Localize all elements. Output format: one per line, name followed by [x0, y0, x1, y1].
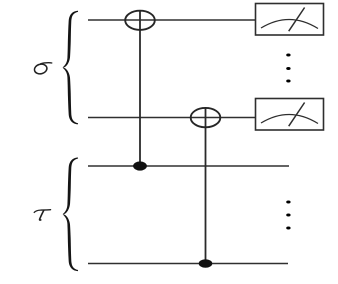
meter M2 arc	[261, 114, 318, 123]
CNOT control dot 1	[133, 161, 147, 170]
meter M2 needle	[289, 103, 305, 127]
CNOT target X2	[191, 108, 221, 127]
vertical ellipsis top	[286, 54, 290, 83]
CNOT control dot 2	[199, 259, 213, 268]
label tau	[34, 210, 50, 220]
wire q2 (second sigma wire)	[88, 117, 255, 119]
wire t2 (second tau wire)	[88, 263, 288, 265]
wire t1 (first tau wire)	[88, 165, 289, 167]
vertical ellipsis bottom	[286, 201, 290, 230]
CNOT target X1	[125, 11, 155, 30]
meter M1 needle	[289, 8, 305, 32]
wire control line CNOT2	[205, 108, 207, 264]
meter M2 box	[256, 99, 324, 131]
wire q1 (top sigma wire)	[88, 19, 255, 21]
brace tau	[63, 157, 78, 271]
wire control line CNOT1	[139, 11, 141, 166]
meter M1 arc	[261, 19, 318, 28]
meter M1 box	[256, 4, 324, 36]
brace sigma	[63, 11, 78, 125]
label sigma	[33, 63, 51, 75]
